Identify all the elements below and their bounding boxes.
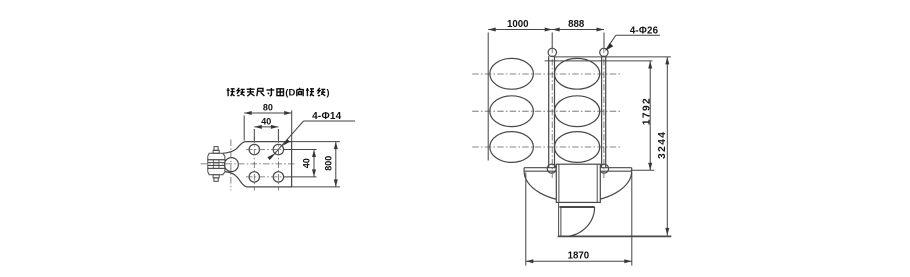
svg-text:888: 888 xyxy=(568,19,585,30)
dim 40 right xyxy=(284,149,317,151)
radiator ellipses left column xyxy=(490,58,534,89)
row centerlines xyxy=(472,73,622,75)
label 4-Φ14 leader: diameter line through top-right hole xyxy=(304,120,356,122)
hole column centerlines xyxy=(253,137,255,191)
svg-text:1792: 1792 xyxy=(642,97,653,125)
extension lines right xyxy=(555,56,671,58)
clamp conductor circle xyxy=(224,158,238,172)
hole row centerlines xyxy=(246,149,287,151)
clamp bottom bolt xyxy=(213,175,219,178)
clamp top cap xyxy=(208,153,225,159)
svg-text:40: 40 xyxy=(261,117,271,127)
svg-text:4-Φ14: 4-Φ14 xyxy=(312,111,341,122)
label 4-Φ26 leader xyxy=(616,34,660,36)
svg-text:(D: (D xyxy=(285,88,295,99)
dim 40 top xyxy=(253,129,255,141)
right hanger bar xyxy=(601,56,603,167)
svg-text:40: 40 xyxy=(302,158,312,168)
clamp plate outline xyxy=(223,142,292,187)
svg-text:1870: 1870 xyxy=(568,251,590,262)
left profile extension line xyxy=(487,33,489,161)
svg-text:800: 800 xyxy=(324,156,334,171)
svg-text:): ) xyxy=(326,88,329,99)
lower cabinet top line xyxy=(560,206,595,208)
bottom line xyxy=(558,235,672,237)
tank bowl arc xyxy=(524,171,632,202)
dim 1792 xyxy=(649,61,651,170)
dim 1870 bottom xyxy=(525,173,527,266)
dim 800 right xyxy=(292,141,340,143)
bar hole circles bottom xyxy=(547,164,556,173)
svg-text:3244: 3244 xyxy=(657,131,668,159)
radiator ellipses right column xyxy=(555,58,600,89)
clamp bottom cap xyxy=(208,168,225,174)
left hanger bar xyxy=(548,56,550,167)
central box (tap changer), white fill masks bowl arc xyxy=(556,164,600,202)
clamp vertical centerline xyxy=(230,140,232,191)
clamp middle band xyxy=(208,160,225,169)
main horizontal centerline xyxy=(201,163,297,165)
dim 3244 xyxy=(666,57,668,236)
4 plate holes xyxy=(249,144,259,154)
dim 1000 / 888 top xyxy=(488,29,604,31)
bar hole circles top xyxy=(548,48,556,56)
lower cabinet left edge xyxy=(558,202,560,236)
dim 80 top xyxy=(243,116,245,141)
cabinet door swing arc xyxy=(564,207,594,236)
bar centerlines xyxy=(551,47,553,179)
tank flange xyxy=(524,167,632,169)
clamp top bolt xyxy=(214,147,218,151)
svg-text:80: 80 xyxy=(263,103,273,113)
title text 接线夹尺寸图(D向旋转) xyxy=(227,88,235,96)
svg-text:1000: 1000 xyxy=(507,19,529,30)
svg-text:4-Φ26: 4-Φ26 xyxy=(630,25,659,36)
